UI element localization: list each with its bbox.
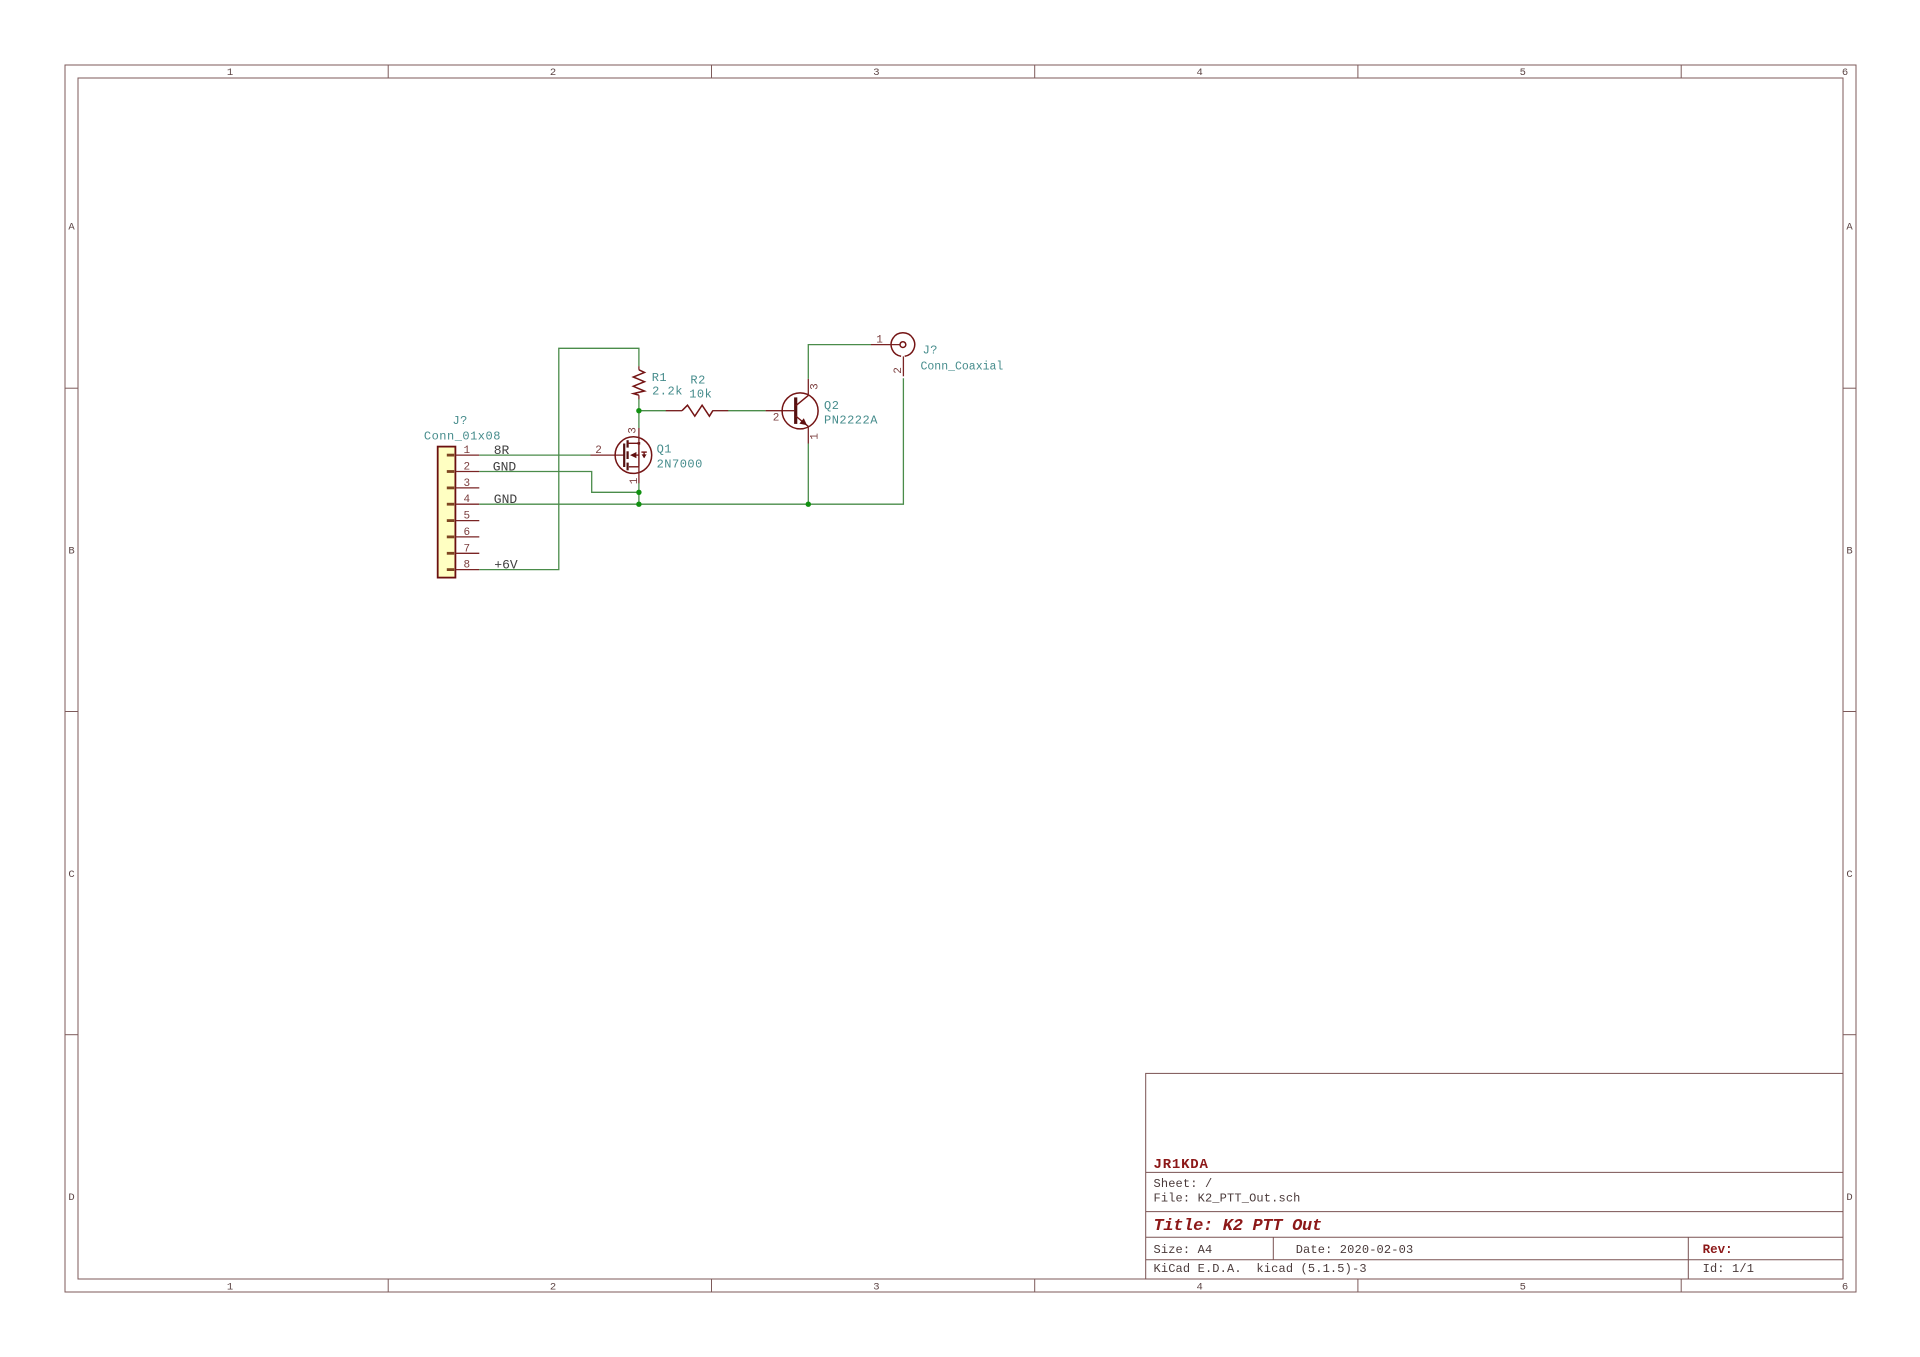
zone tick bottom 5|6 xyxy=(1680,1279,1682,1292)
svg-text:A: A xyxy=(1846,222,1853,234)
connector J1 pin2 stub xyxy=(455,471,479,473)
svg-text:R2: R2 xyxy=(690,373,705,387)
wire R2 right to Q2 base xyxy=(728,410,766,412)
svg-text:D: D xyxy=(68,1192,74,1204)
svg-text:3: 3 xyxy=(628,427,640,434)
transistor Q1 source arrow xyxy=(630,452,636,458)
zone tick right C|D xyxy=(1843,1034,1856,1036)
junction at GND rail below Q2 xyxy=(806,502,811,507)
svg-text:1: 1 xyxy=(629,477,641,484)
transistor Q1 bottom link xyxy=(629,466,639,468)
zone tick bottom 3|4 xyxy=(1034,1279,1036,1292)
zone tick top 2|3 xyxy=(711,65,713,78)
coaxial connector J2 pin2 stub xyxy=(902,356,904,376)
svg-text:8: 8 xyxy=(463,560,470,572)
connector J1 pin7 pill xyxy=(447,552,454,555)
svg-text:Rev:: Rev: xyxy=(1703,1243,1733,1257)
zone tick top 1|2 xyxy=(387,65,389,78)
svg-text:6: 6 xyxy=(1842,1281,1848,1293)
svg-text:1: 1 xyxy=(227,67,233,79)
svg-text:Id: 1/1: Id: 1/1 xyxy=(1703,1262,1754,1276)
svg-text:3: 3 xyxy=(463,478,470,490)
connector J1 pin8 stub xyxy=(455,569,479,571)
transistor Q2 base pin xyxy=(766,410,795,412)
zone tick top 5|6 xyxy=(1680,65,1682,78)
resistor R1 body xyxy=(633,370,644,395)
svg-text:5: 5 xyxy=(1520,1281,1526,1293)
svg-text:2: 2 xyxy=(773,413,780,425)
transistor Q2 emitter pin xyxy=(807,426,809,443)
svg-text:R1: R1 xyxy=(652,371,667,385)
transistor Q1 gate bar xyxy=(623,444,625,468)
wire GND junction to Q2 emitter foot xyxy=(639,503,808,505)
connector J1 pin1 stub xyxy=(455,454,479,456)
svg-text:Conn_01x08: Conn_01x08 xyxy=(424,429,501,443)
resistor R1 top pin xyxy=(638,366,640,370)
junction at GND rail below Q1 xyxy=(636,502,641,507)
connector J1 pin6 stub xyxy=(455,536,479,538)
zone tick left B|C xyxy=(65,711,78,713)
title block line under file xyxy=(1146,1211,1843,1213)
svg-text:JR1KDA: JR1KDA xyxy=(1154,1157,1209,1173)
svg-text:D: D xyxy=(1846,1192,1852,1204)
svg-text:A: A xyxy=(68,222,75,234)
svg-text:B: B xyxy=(68,546,74,558)
zone tick left A|B xyxy=(65,387,78,389)
transistor Q1 gate pin xyxy=(591,454,625,456)
svg-text:KiCad E.D.A. kicad (5.1.5)-3: KiCad E.D.A. kicad (5.1.5)-3 xyxy=(1154,1262,1367,1276)
connector J1 pin5 pill xyxy=(447,519,454,522)
svg-text:Conn_Coaxial: Conn_Coaxial xyxy=(921,360,1004,373)
svg-text:4: 4 xyxy=(1196,1281,1202,1293)
title block line under size/date xyxy=(1146,1259,1843,1261)
coaxial connector J2 center pin circle xyxy=(900,342,906,348)
transistor Q2 circle xyxy=(782,393,818,429)
junction at Q1 source / pin2 GND xyxy=(636,490,641,495)
coaxial connector J2 pin1 stub xyxy=(871,344,900,346)
svg-text:Q1: Q1 xyxy=(657,442,672,456)
svg-text:2: 2 xyxy=(550,1281,556,1293)
transistor Q2 emitter arrow xyxy=(799,418,807,425)
svg-text:7: 7 xyxy=(463,543,470,555)
wire GND pin2 to Q1 source xyxy=(479,472,637,493)
svg-text:Sheet: /: Sheet: / xyxy=(1154,1177,1213,1191)
transistor Q2 base bar xyxy=(794,397,797,424)
connector J1 body xyxy=(438,447,456,578)
transistor Q1 drain link xyxy=(628,442,639,444)
svg-text:GND: GND xyxy=(494,492,518,507)
svg-text:J?: J? xyxy=(452,414,467,428)
connector J1 pin7 stub xyxy=(455,552,479,554)
transistor Q1 drain pin xyxy=(638,428,640,443)
svg-text:J?: J? xyxy=(923,343,938,357)
zone tick bottom 4|5 xyxy=(1357,1279,1359,1292)
transistor Q1 internal vertical xyxy=(638,443,640,467)
zone tick bottom 1|2 xyxy=(387,1279,389,1292)
transistor Q2 collector diagonal xyxy=(796,395,809,405)
coaxial connector J2 shield circle xyxy=(891,333,915,356)
title block divider size/date xyxy=(1272,1237,1274,1259)
svg-text:4: 4 xyxy=(463,494,470,506)
svg-text:2: 2 xyxy=(893,367,905,374)
wire GND Q2 foot to coax shield xyxy=(808,378,903,504)
wire 8R pin1 to Q1 gate xyxy=(479,454,590,456)
svg-text:5: 5 xyxy=(1520,67,1526,79)
resistor R1 bottom pin xyxy=(638,395,640,399)
resistor R2 right pin xyxy=(712,410,728,412)
svg-text:Date: 2020-02-03: Date: 2020-02-03 xyxy=(1296,1243,1414,1257)
connector J1 pin8 pill xyxy=(447,568,454,571)
connector J1 pin1 pill xyxy=(447,454,454,457)
zone tick top 4|5 xyxy=(1357,65,1359,78)
svg-text:Title: K2 PTT Out: Title: K2 PTT Out xyxy=(1154,1217,1322,1236)
transistor Q1 source pin xyxy=(638,467,640,483)
transistor Q1 body diode arrow xyxy=(642,454,647,458)
svg-text:6: 6 xyxy=(463,527,470,539)
svg-text:Size: A4: Size: A4 xyxy=(1154,1243,1213,1257)
connector J1 pin4 pill xyxy=(447,503,454,506)
svg-text:2: 2 xyxy=(595,445,602,457)
title block line under title xyxy=(1146,1236,1843,1238)
zone tick top 3|4 xyxy=(1034,65,1036,78)
wire Q1 source to GND xyxy=(638,483,640,504)
svg-text:File: K2_PTT_Out.sch: File: K2_PTT_Out.sch xyxy=(1154,1192,1301,1206)
wire R1 bottom to junction xyxy=(638,399,640,411)
svg-text:2: 2 xyxy=(550,67,556,79)
svg-text:1: 1 xyxy=(810,433,822,440)
title block outline xyxy=(1146,1073,1843,1279)
junction at R1/R2/Q1 drain xyxy=(636,408,641,413)
wire Q2 collector to coax line xyxy=(808,345,871,379)
svg-text:4: 4 xyxy=(1196,67,1202,79)
zone tick right A|B xyxy=(1843,387,1856,389)
transistor Q1 source link xyxy=(636,454,639,456)
svg-text:1: 1 xyxy=(876,334,883,346)
transistor Q1 channel bar bottom xyxy=(626,463,628,471)
wire junction to Q1 drain xyxy=(638,411,640,428)
title block line under company xyxy=(1146,1171,1843,1173)
svg-text:B: B xyxy=(1846,546,1852,558)
connector J1 pin5 stub xyxy=(455,520,479,522)
svg-text:3: 3 xyxy=(809,383,821,390)
svg-text:1: 1 xyxy=(227,1281,233,1293)
wire junction to R2 left xyxy=(639,410,666,412)
connector J1 pin2 pill xyxy=(447,470,454,473)
transistor Q1 drain node dot xyxy=(638,442,641,445)
transistor Q1 channel bar middle xyxy=(626,451,628,459)
svg-text:PN2222A: PN2222A xyxy=(824,413,878,427)
resistor R2 left pin xyxy=(666,410,682,412)
transistor Q1 channel bar top xyxy=(626,440,628,447)
svg-text:3: 3 xyxy=(873,1281,879,1293)
connector J1 pin6 pill xyxy=(447,536,454,539)
svg-text:2N7000: 2N7000 xyxy=(657,457,703,471)
zone tick left C|D xyxy=(65,1034,78,1036)
svg-text:2.2k: 2.2k xyxy=(652,385,683,399)
svg-text:6: 6 xyxy=(1842,67,1848,79)
transistor Q2 emitter diagonal xyxy=(796,416,809,426)
connector J1 pin3 stub xyxy=(455,487,479,489)
svg-text:C: C xyxy=(68,869,74,881)
title block divider rev/id xyxy=(1687,1237,1689,1279)
transistor Q2 collector pin xyxy=(807,379,809,396)
transistor Q1 body diode bar xyxy=(641,451,646,453)
svg-text:C: C xyxy=(1846,869,1852,881)
wire GND pin4 to junction xyxy=(479,503,639,505)
transistor Q1 body diode line xyxy=(643,452,645,458)
connector J1 pin3 pill xyxy=(447,486,454,489)
svg-text:2: 2 xyxy=(463,462,470,474)
transistor Q1 circle xyxy=(615,437,652,474)
svg-text:Q2: Q2 xyxy=(824,399,839,413)
svg-text:3: 3 xyxy=(873,67,879,79)
wire +6V pin8 up to R1 top xyxy=(479,348,639,569)
zone tick right B|C xyxy=(1843,711,1856,713)
wire Q2 emitter to GND xyxy=(807,444,809,505)
zone tick bottom 2|3 xyxy=(711,1279,713,1292)
svg-text:5: 5 xyxy=(463,511,470,523)
svg-text:10k: 10k xyxy=(689,388,712,402)
resistor R2 body xyxy=(682,405,713,416)
connector J1 pin4 stub xyxy=(455,503,479,505)
svg-text:1: 1 xyxy=(463,445,470,457)
